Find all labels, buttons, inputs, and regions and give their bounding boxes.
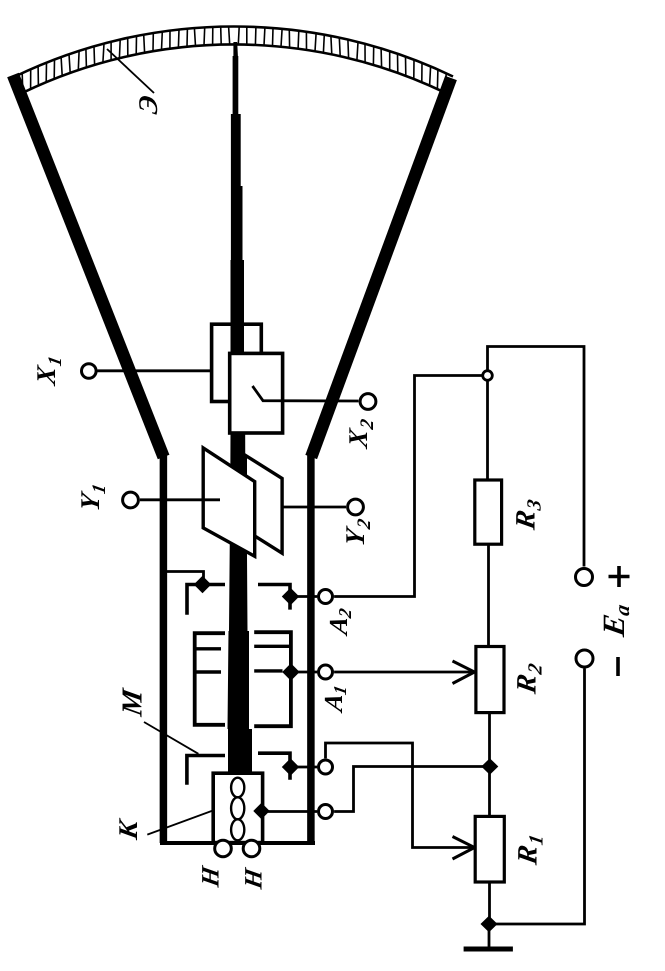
R1 wiper arrowhead xyxy=(453,837,475,860)
cathode terminal circle xyxy=(319,805,333,819)
cathode label leader xyxy=(147,811,212,835)
minus terminal circle xyxy=(576,650,593,667)
X plate front (X2) xyxy=(230,353,283,433)
Y1 terminal circle xyxy=(123,492,139,508)
junction diamond on modulator xyxy=(282,758,299,775)
A2 terminal circle xyxy=(319,590,333,604)
screen band hatch ticks xyxy=(22,27,446,93)
junction diamond on right bracket xyxy=(282,588,299,605)
wire wall to A2-left bracket xyxy=(167,572,204,583)
screen band outer arc xyxy=(15,26,453,76)
anode A1 cylinder left half xyxy=(195,633,225,725)
screen band inner arc xyxy=(23,44,445,92)
junction dot R1-R2 xyxy=(481,758,498,775)
modulator terminal circle xyxy=(319,760,333,774)
minus sign xyxy=(616,657,620,676)
plus sign xyxy=(609,566,630,587)
X2 plate lead xyxy=(253,386,359,401)
resistor R2 xyxy=(476,647,504,713)
modulator label leader xyxy=(144,722,198,754)
minus wire down to ground junction xyxy=(496,669,585,925)
A1 terminal circle xyxy=(319,665,333,679)
Y2 terminal lead xyxy=(282,506,346,509)
electron beam (tapered) xyxy=(228,42,253,774)
heater filament coil xyxy=(231,778,244,798)
cathode box xyxy=(213,773,262,842)
anode A1 cylinder right half xyxy=(254,632,291,726)
wire R2 to junction xyxy=(488,713,491,767)
cathode terminal lead xyxy=(262,810,318,813)
junction diamond on cathode xyxy=(253,803,269,819)
modulator right bracket xyxy=(258,753,290,780)
A2 wire to divider top xyxy=(334,376,481,597)
right funnel wall xyxy=(311,78,451,457)
junction diamond on left bracket xyxy=(194,576,211,593)
wire node to R3 xyxy=(486,382,489,481)
ground junction dot xyxy=(481,916,498,933)
cathode wire to divider junction xyxy=(334,767,483,812)
open junction node xyxy=(483,371,493,381)
left funnel wall xyxy=(13,75,164,457)
X1 terminal lead xyxy=(98,369,212,372)
A2 electrode left bracket xyxy=(187,585,225,615)
wire R1 to ground junction xyxy=(488,882,491,924)
tube bottom edge xyxy=(160,841,315,845)
top supply wire xyxy=(488,347,585,567)
ground bar xyxy=(464,947,513,952)
wire R3 to R2 xyxy=(487,544,490,646)
Y2 terminal circle xyxy=(348,499,364,515)
A2 electrode right bracket xyxy=(258,585,290,610)
Y plate back (Y2) xyxy=(245,455,282,553)
wire junction to R1 xyxy=(488,767,491,817)
resistor R1 xyxy=(475,816,504,882)
modulator left bracket xyxy=(187,756,225,785)
ground stem xyxy=(488,924,491,947)
X plate back (X1) xyxy=(212,324,262,401)
R2 wiper arrowhead xyxy=(453,661,475,684)
plus terminal circle xyxy=(576,569,593,586)
modulator terminal lead xyxy=(291,766,318,769)
Y1 terminal lead xyxy=(140,498,220,501)
resistor R3 xyxy=(475,480,502,544)
screen label leader xyxy=(107,49,154,93)
A1 terminal lead xyxy=(291,671,317,674)
beam over back plate xyxy=(231,324,245,355)
Y plate front (Y1) xyxy=(203,448,255,556)
A1 wire to R2 wiper xyxy=(334,671,473,674)
heater lead-out circles xyxy=(215,840,232,857)
A2 terminal lead xyxy=(291,595,318,598)
modulator wire to R1 wiper xyxy=(326,743,474,848)
junction diamond on A1 xyxy=(282,663,299,680)
X1 terminal circle xyxy=(82,364,97,379)
X2 terminal circle xyxy=(360,394,376,410)
